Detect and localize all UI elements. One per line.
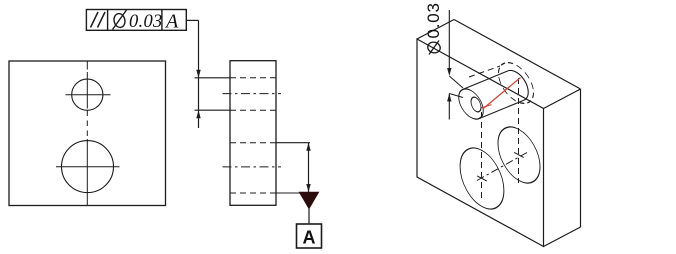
center tick on back large hole bbox=[514, 152, 524, 157]
hidden line: large hole top, extended right to datum dimension bbox=[230, 142, 276, 144]
vertical dashed centerline through front large hole bbox=[481, 112, 483, 202]
datum axis A centerline (dash-dot) between hole centers bbox=[477, 153, 527, 181]
svg-text:A: A bbox=[164, 11, 179, 33]
vertical dashed centerline through back large hole bbox=[518, 78, 520, 183]
centerline: large hole axis bbox=[223, 166, 282, 168]
leader arrow (up) at small hole lower hidden line bbox=[196, 110, 200, 118]
parallelism symbol // bbox=[91, 12, 99, 28]
hidden line: small hole top bbox=[230, 77, 276, 79]
middle view: side view outline bbox=[230, 61, 276, 206]
3D block: top face edges bbox=[417, 20, 454, 40]
dimension leader for tolerance zone diameter bbox=[448, 10, 450, 72]
small hole horizontal centerline bbox=[66, 94, 111, 96]
small hole circle (top) bbox=[72, 79, 103, 110]
datum identification box A bbox=[297, 224, 322, 248]
leader arrow (down) at small hole upper hidden line bbox=[196, 70, 200, 78]
tolerance zone front cap (small solid ellipse) bbox=[471, 95, 481, 114]
stem from triangle to datum box bbox=[308, 209, 310, 225]
large hole front ellipse bbox=[460, 138, 504, 218]
left view: front view outline of square plate bbox=[9, 61, 166, 206]
center tick on front large hole bbox=[477, 176, 487, 181]
cylinder back cap arc bbox=[508, 70, 528, 100]
feature control frame box bbox=[86, 10, 186, 31]
svg-text:0.03: 0.03 bbox=[424, 2, 443, 38]
diameter symbol in FCF bbox=[113, 13, 126, 29]
large hole circle (bottom) bbox=[62, 141, 114, 193]
large hole back ellipse bbox=[498, 118, 540, 192]
cylinder top silhouette line bbox=[463, 71, 508, 90]
actual axis (red) inside tolerance zone bbox=[483, 78, 521, 109]
svg-text:A: A bbox=[303, 228, 316, 248]
vertical centerline of left view bbox=[86, 61, 88, 70]
leader line from FCF to middle view bbox=[186, 19, 198, 21]
hidden line: large hole bottom, extended right to datum triangle bbox=[230, 192, 276, 194]
datum feature triangle (filled) bbox=[300, 192, 319, 208]
cylinder bottom silhouette line bbox=[479, 100, 524, 119]
centerline: small hole axis bbox=[223, 93, 282, 95]
large hole horizontal centerline bbox=[56, 166, 120, 168]
connector from arrow to zone top bbox=[449, 76, 463, 88]
3D block: right face edges bbox=[580, 89, 582, 227]
rotated diameter 0.03 label bbox=[424, 2, 443, 54]
tolerance zone top silhouette (dashed) bbox=[469, 66, 500, 77]
extension line: top of small hole bbox=[195, 77, 231, 79]
hidden line: small hole bottom bbox=[230, 109, 276, 111]
center tick on small hole front bbox=[482, 105, 492, 108]
connector from arrow to zone bottom bbox=[449, 94, 463, 98]
extension line: bottom of small hole bbox=[195, 109, 231, 111]
tolerance zone back ellipse (dashed) bbox=[498, 55, 533, 110]
3D block: front face outline bbox=[417, 39, 544, 247]
datum dimension line with arrows bbox=[308, 143, 310, 192]
small hole front opening ellipse (cylinder front cap) bbox=[459, 84, 484, 124]
svg-text:0.03: 0.03 bbox=[129, 12, 163, 32]
